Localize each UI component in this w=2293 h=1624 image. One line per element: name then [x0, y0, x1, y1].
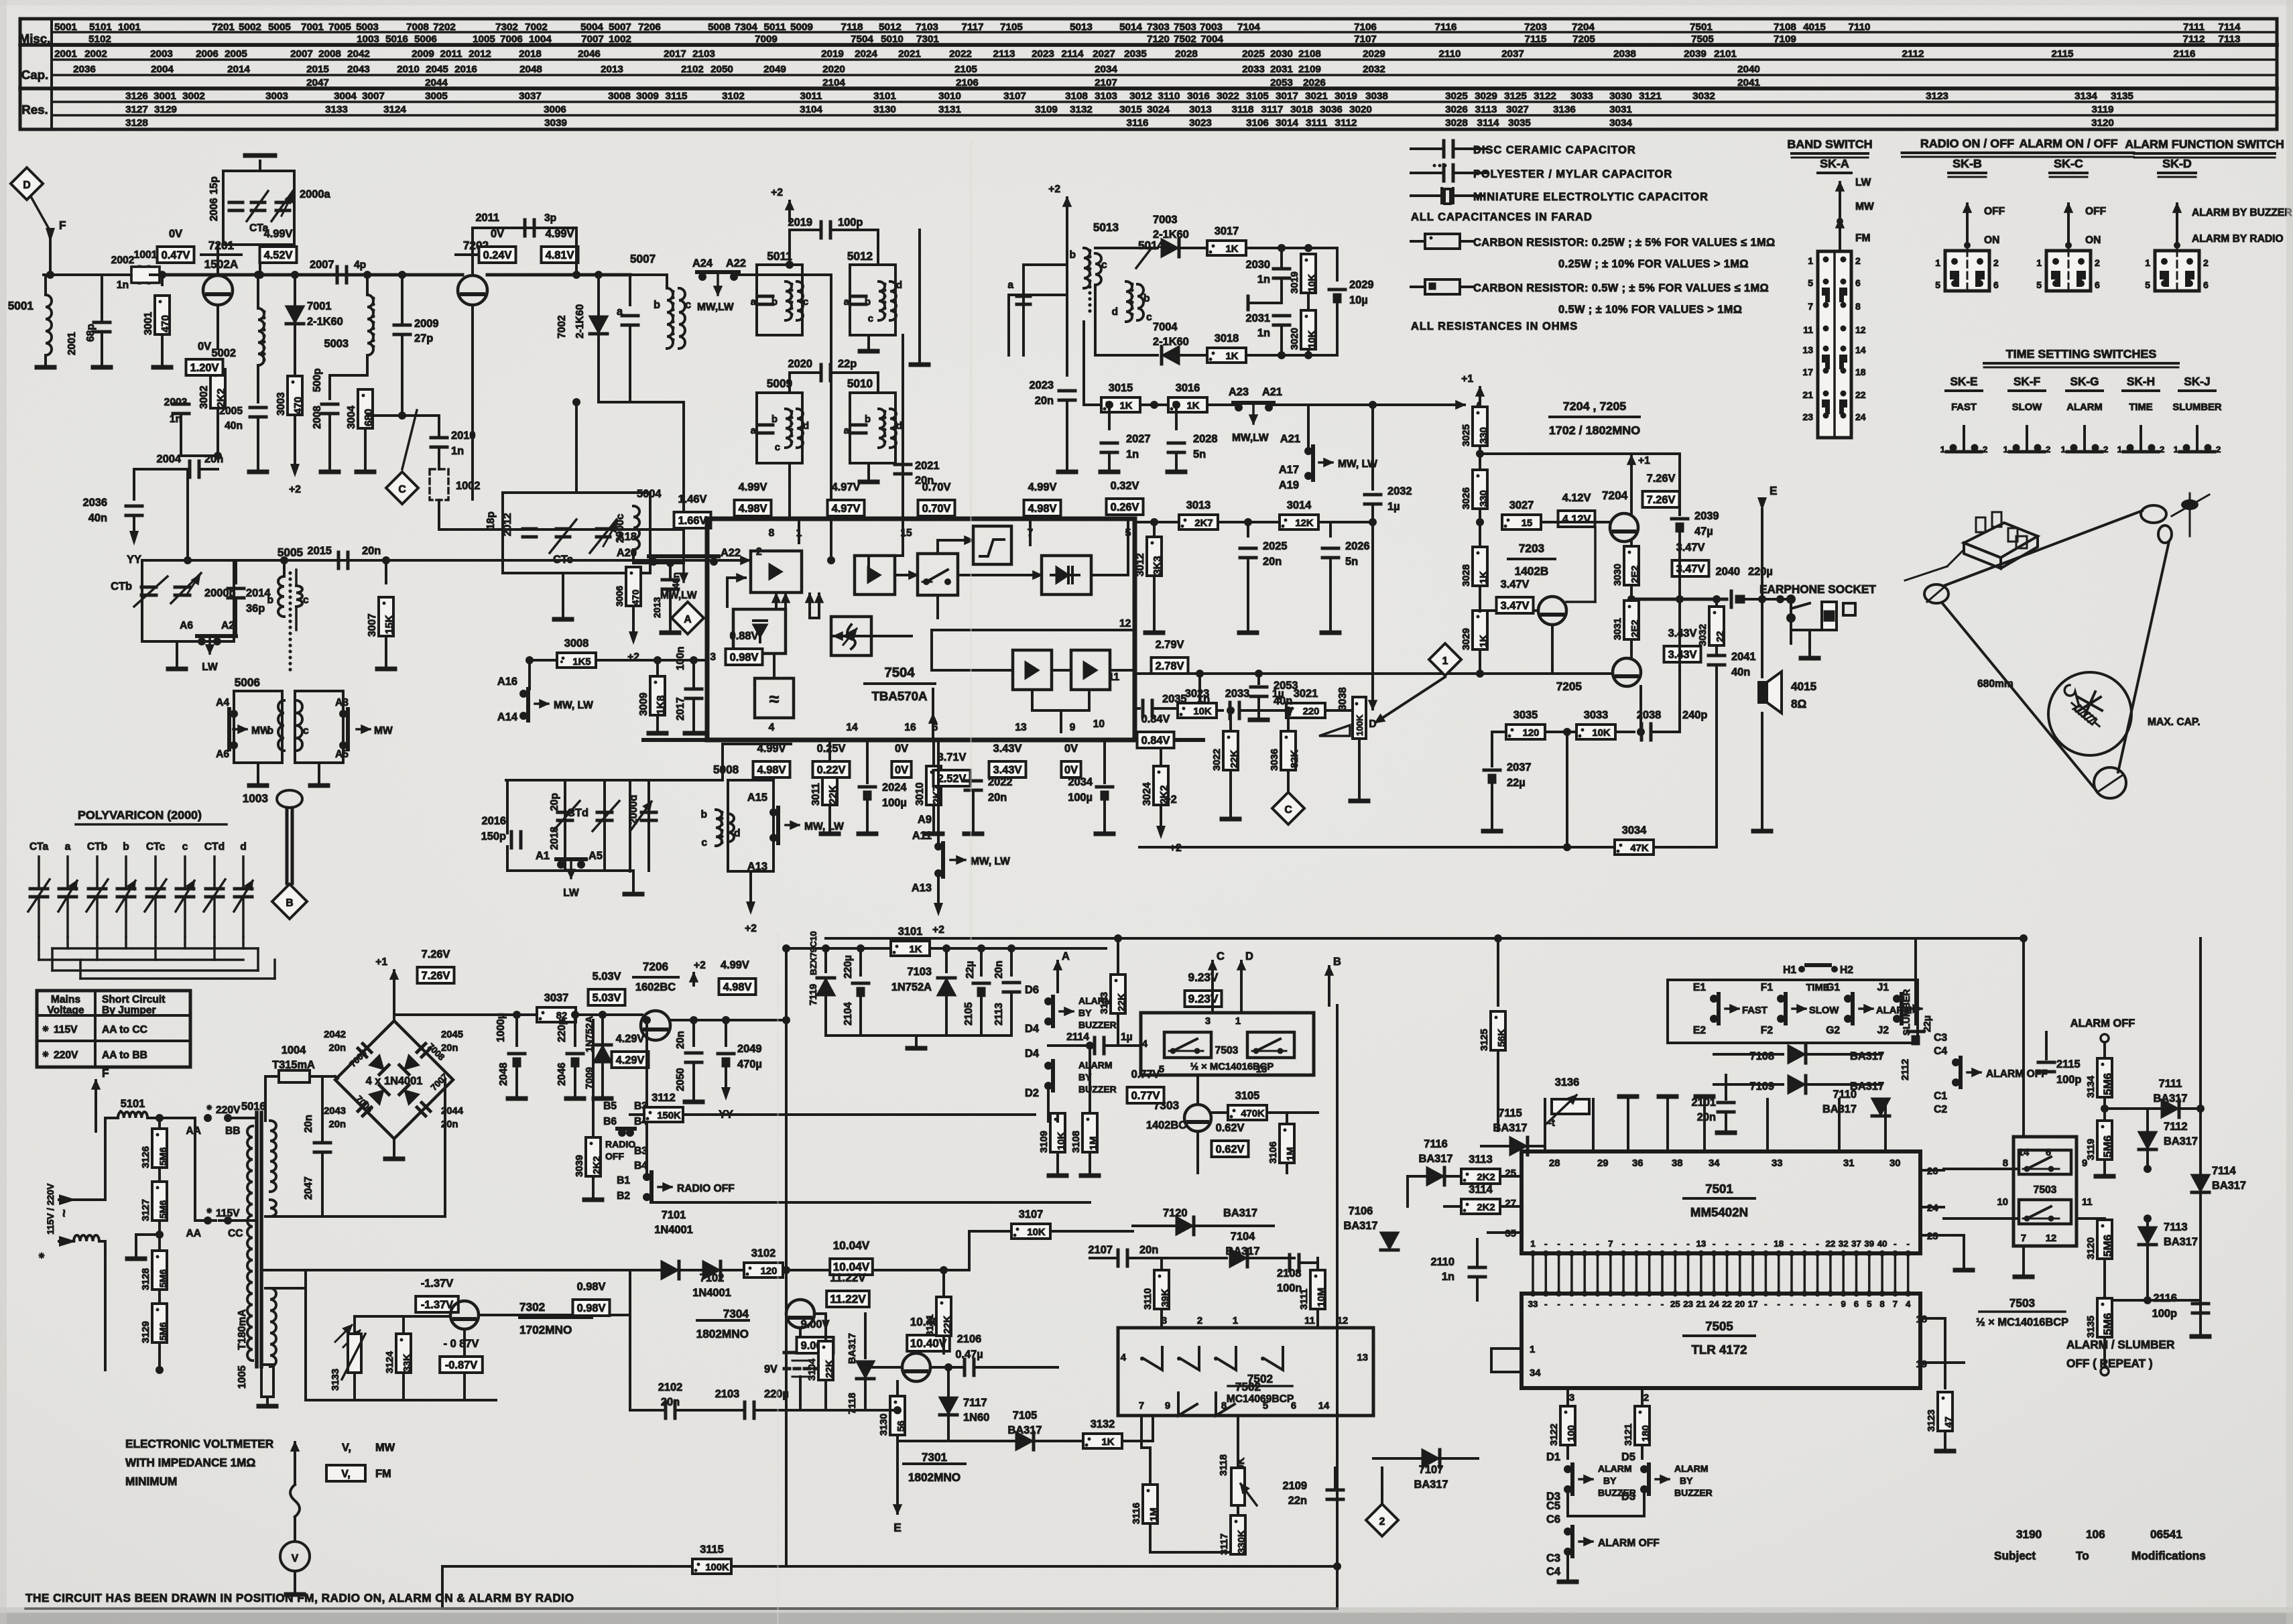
svg-text:10µ: 10µ	[1349, 294, 1368, 306]
svg-text:-0.87V: -0.87V	[445, 1359, 477, 1371]
svg-text:b: b	[865, 414, 871, 425]
svg-text:7005: 7005	[328, 21, 351, 33]
svg-text:2101: 2101	[1692, 1097, 1716, 1109]
cap 2014 36p	[235, 560, 237, 583]
svg-text:680: 680	[363, 409, 375, 426]
svg-text:1M: 1M	[1089, 1136, 1099, 1150]
svg-text:3127: 3127	[141, 1199, 151, 1221]
svg-text:½ × MC14016BCP: ½ × MC14016BCP	[1190, 1062, 1274, 1072]
cap 2047 20n	[321, 1076, 324, 1141]
svg-text:100K: 100K	[705, 1562, 729, 1573]
IC 7502 MC14069BCP	[1118, 1328, 1373, 1416]
svg-text:5001: 5001	[8, 299, 34, 312]
svg-text:2048: 2048	[519, 64, 542, 75]
svg-text:5005: 5005	[277, 546, 304, 559]
svg-text:30: 30	[1889, 1158, 1900, 1169]
svg-text:MW: MW	[375, 1442, 395, 1454]
svg-text:0.32V: 0.32V	[1111, 480, 1139, 492]
svg-text:2: 2	[1379, 1516, 1385, 1527]
svg-text:2001: 2001	[54, 48, 77, 60]
svg-text:2049: 2049	[737, 1043, 761, 1055]
diamond 1 pointer	[1429, 643, 1461, 676]
svg-text:3118: 3118	[1232, 104, 1254, 115]
svg-text:3003: 3003	[265, 90, 288, 102]
svg-text:2116: 2116	[2153, 1292, 2177, 1304]
svg-text:c: c	[1146, 312, 1152, 323]
svg-text:3120: 3120	[2091, 117, 2114, 129]
svg-text:10.04V: 10.04V	[833, 1239, 870, 1252]
svg-text:1K: 1K	[1102, 1437, 1115, 1448]
rail 3037 to regulator 7206	[537, 1007, 576, 1022]
svg-text:3036: 3036	[1320, 104, 1343, 115]
output node wire	[1631, 598, 1727, 601]
svg-text:0V: 0V	[895, 743, 908, 755]
svg-text:3119: 3119	[2086, 1139, 2097, 1160]
svg-text:3022: 3022	[1212, 749, 1223, 771]
svg-text:3012: 3012	[1129, 90, 1152, 102]
svg-text:3104: 3104	[800, 104, 822, 115]
svg-text:9: 9	[1841, 1299, 1845, 1309]
svg-text:14: 14	[846, 722, 858, 733]
svg-text:120: 120	[1523, 728, 1540, 739]
svg-text:5004: 5004	[637, 488, 662, 500]
svg-text:3022: 3022	[1217, 90, 1239, 102]
svg-text:MAX. CAP.: MAX. CAP.	[2148, 716, 2201, 728]
svg-text:220µ: 220µ	[843, 955, 854, 979]
svg-text:3011: 3011	[800, 90, 823, 102]
spring in drum	[2064, 685, 2079, 706]
svg-text:3020: 3020	[1349, 104, 1372, 115]
resistor 3122 100	[1560, 1406, 1575, 1445]
svg-text:≈: ≈	[769, 689, 780, 709]
svg-text:BY: BY	[1078, 1007, 1092, 1018]
cap 2049 470u	[725, 1020, 727, 1046]
svg-text:5: 5	[2145, 279, 2150, 290]
svg-text:7202: 7202	[433, 21, 456, 33]
svg-text:33: 33	[1772, 1158, 1782, 1169]
voltmeter symbol	[294, 1442, 296, 1485]
svg-text:2000a: 2000a	[300, 188, 330, 200]
svg-text:d: d	[734, 828, 741, 839]
svg-text:39: 39	[1864, 1239, 1874, 1249]
svg-text:V,: V,	[342, 1442, 351, 1454]
svg-text:By Jumper: By Jumper	[102, 1005, 156, 1016]
svg-text:10K: 10K	[1307, 330, 1318, 349]
svg-text:-: -	[1686, 1239, 1689, 1249]
svg-text:- 0 87V: - 0 87V	[444, 1338, 479, 1350]
svg-text:28: 28	[1549, 1158, 1560, 1169]
svg-text:2019: 2019	[821, 48, 844, 60]
svg-text:3.47V: 3.47V	[1501, 578, 1530, 590]
svg-text:7009: 7009	[755, 34, 778, 45]
jumper 1001	[131, 267, 160, 283]
zener 7119 BZX79C10	[824, 948, 827, 972]
svg-text:2110: 2110	[1439, 48, 1461, 60]
svg-text:b: b	[771, 414, 778, 425]
svg-text:3025: 3025	[1461, 424, 1472, 446]
svg-text:SK-D: SK-D	[2162, 157, 2192, 170]
svg-text:3p: 3p	[544, 212, 556, 224]
cap 2050 20n	[692, 1020, 695, 1046]
transistor 7205	[1613, 658, 1641, 686]
svg-text:CTb: CTb	[111, 580, 132, 592]
svg-text:7103: 7103	[916, 21, 938, 33]
legend resistors	[1411, 240, 1425, 243]
svg-text:A3: A3	[335, 697, 349, 708]
svg-text:2023: 2023	[1032, 48, 1054, 60]
svg-text:7119: 7119	[808, 984, 819, 1005]
svg-text:1: 1	[2061, 444, 2066, 454]
svg-text:19: 19	[1916, 1359, 1927, 1370]
svg-text:+1: +1	[1638, 455, 1650, 466]
svg-text:3131: 3131	[925, 1314, 936, 1336]
discriminator network	[1095, 247, 1158, 249]
svg-text:3037: 3037	[544, 992, 568, 1004]
svg-text:36: 36	[1632, 1158, 1643, 1169]
svg-text:20n: 20n	[441, 1119, 458, 1130]
svg-text:3132: 3132	[1070, 104, 1093, 115]
svg-text:BA317: BA317	[1493, 1122, 1527, 1134]
svg-text:1: 1	[1940, 444, 1946, 454]
svg-text:5008: 5008	[708, 21, 731, 33]
IC 7503 first half box	[1141, 1013, 1314, 1075]
svg-text:3024: 3024	[1147, 104, 1170, 115]
svg-text:RADIO OFF: RADIO OFF	[677, 1183, 735, 1194]
svg-text:7301: 7301	[922, 1450, 948, 1464]
svg-text:3131: 3131	[938, 104, 961, 115]
svg-text:MINIATURE ELECTROLYTIC CAP: MINIATURE ELECTROLYTIC CAPACITOR	[1473, 191, 1709, 203]
svg-text:2008: 2008	[312, 405, 323, 429]
svg-text:5005: 5005	[268, 21, 291, 33]
svg-text:D3: D3	[1621, 1491, 1635, 1503]
svg-text:7504: 7504	[884, 666, 915, 680]
svg-text:7106: 7106	[1349, 1205, 1373, 1217]
jumper 115V AA CC	[194, 1118, 196, 1221]
svg-text:ON: ON	[1984, 235, 1999, 246]
IC internal wiring	[721, 559, 749, 562]
svg-text:2K2: 2K2	[1477, 1202, 1495, 1213]
svg-text:7.26V: 7.26V	[422, 948, 450, 960]
svg-text:2: 2	[2160, 444, 2164, 454]
svg-text:56K: 56K	[1497, 1029, 1507, 1047]
diode 7002	[575, 228, 578, 275]
svg-text:3: 3	[1162, 1316, 1167, 1326]
cap 2008 500p	[328, 375, 331, 399]
svg-text:2014: 2014	[227, 64, 250, 75]
base wire 7203-7204 pair	[1594, 527, 1597, 602]
svg-text:DISC CERAMIC CAPACITOR: DISC CERAMIC CAPACITOR	[1473, 144, 1636, 156]
svg-text:MW, LW: MW, LW	[971, 856, 1010, 867]
svg-text:7105: 7105	[1000, 21, 1023, 33]
gnd stub	[1248, 302, 1282, 304]
svg-text:2102: 2102	[681, 64, 704, 75]
svg-text:3023: 3023	[1189, 117, 1212, 129]
terminal A arrow	[1056, 961, 1059, 973]
svg-text:21: 21	[1802, 389, 1813, 400]
svg-text:0.88V: 0.88V	[730, 630, 759, 642]
svg-text:-: -	[1739, 1239, 1741, 1249]
svg-text:MW, LW: MW, LW	[804, 821, 844, 832]
svg-text:2: 2	[2103, 444, 2108, 454]
svg-text:3129: 3129	[141, 1321, 151, 1343]
svg-text:To: To	[2076, 1549, 2089, 1562]
svg-text:2115: 2115	[2056, 1058, 2081, 1070]
svg-text:2047: 2047	[306, 77, 329, 88]
svg-text:MW: MW	[251, 725, 270, 737]
svg-text:1n: 1n	[451, 445, 464, 457]
svg-text:7206: 7206	[638, 21, 661, 33]
svg-text:1502A: 1502A	[204, 257, 239, 271]
svg-text:C1: C1	[1934, 1090, 1947, 1102]
svg-text:OFF: OFF	[2085, 206, 2106, 217]
svg-text:7114: 7114	[2219, 21, 2241, 33]
svg-text:Mains: Mains	[51, 994, 81, 1005]
svg-text:-: -	[1894, 1239, 1896, 1249]
svg-text:b: b	[771, 297, 778, 308]
svg-text:MW,LW: MW,LW	[697, 302, 734, 313]
svg-text:c: c	[868, 314, 873, 324]
svg-text:1N60: 1N60	[963, 1412, 989, 1424]
resistor 3107 10K	[1011, 1224, 1050, 1239]
svg-text:330K: 330K	[1237, 1529, 1247, 1554]
svg-text:1K: 1K	[910, 944, 922, 955]
svg-text:3123: 3123	[1926, 1410, 1937, 1432]
pin15 path	[902, 519, 904, 556]
svg-text:7111: 7111	[2159, 1078, 2182, 1090]
svg-text:5011: 5011	[764, 21, 787, 33]
svg-text:-t: -t	[1548, 1118, 1555, 1129]
svg-text:7.26V: 7.26V	[1647, 494, 1676, 506]
svg-text:39K: 39K	[1160, 1289, 1171, 1307]
cap 2017 100n	[690, 656, 698, 664]
svg-text:BA317: BA317	[1007, 1424, 1042, 1436]
detector block	[1042, 556, 1091, 595]
svg-text:4.99V: 4.99V	[721, 959, 749, 971]
svg-text:2002: 2002	[111, 255, 135, 266]
svg-text:5M6: 5M6	[2101, 1313, 2114, 1335]
svg-text:20n: 20n	[1139, 1244, 1158, 1256]
svg-text:40n: 40n	[225, 420, 243, 432]
svg-text:3103: 3103	[1095, 90, 1117, 102]
svg-text:1: 1	[2003, 444, 2009, 454]
svg-text:1001: 1001	[118, 21, 141, 33]
svg-text:A9: A9	[918, 814, 932, 826]
svg-text:D2: D2	[1025, 1087, 1039, 1099]
svg-text:c: c	[303, 595, 309, 606]
svg-text:b: b	[700, 809, 707, 820]
svg-text:2043: 2043	[347, 64, 370, 75]
svg-text:47: 47	[1944, 1417, 1955, 1428]
svg-text:22: 22	[1715, 631, 1726, 642]
IC 7504 TBA570A outline	[707, 519, 1135, 740]
svg-text:3033: 3033	[1584, 709, 1608, 721]
svg-text:3132: 3132	[1091, 1418, 1115, 1430]
svg-text:8: 8	[1855, 301, 1861, 312]
svg-text:TIME: TIME	[2129, 402, 2152, 413]
svg-text:5.03V: 5.03V	[593, 992, 621, 1004]
svg-text:WITH IMPEDANCE 1MΩ: WITH IMPEDANCE 1MΩ	[125, 1456, 255, 1469]
svg-text:11: 11	[2082, 1197, 2093, 1208]
cap 2024 100u	[859, 786, 875, 789]
svg-text:3114: 3114	[1469, 1184, 1493, 1196]
svg-text:7203: 7203	[1519, 542, 1544, 555]
svg-text:3114: 3114	[1477, 117, 1500, 129]
diode 7004	[1095, 354, 1158, 357]
svg-text:2030: 2030	[1270, 48, 1293, 60]
svg-text:5010: 5010	[881, 34, 904, 45]
svg-text:3008: 3008	[564, 637, 588, 649]
resistor 3012 3K3	[1153, 522, 1156, 536]
svg-text:A21: A21	[1262, 386, 1282, 398]
pin6 arrows	[932, 714, 934, 740]
resistors 3109 3108	[1050, 1113, 1065, 1152]
resistor 3117 330K	[1231, 1515, 1245, 1554]
svg-text:7108: 7108	[1774, 21, 1796, 33]
svg-text:C4: C4	[1934, 1046, 1947, 1057]
svg-text:40: 40	[1877, 1239, 1887, 1249]
svg-text:2-1K60: 2-1K60	[307, 316, 343, 328]
svg-text:1402B: 1402B	[1515, 564, 1549, 578]
svg-text:22: 22	[1855, 389, 1866, 400]
svg-text:3001: 3001	[143, 312, 154, 335]
transistor 7301	[902, 1353, 930, 1381]
svg-text:7501: 7501	[1690, 21, 1713, 33]
bridge rectifier 4x1N4001	[335, 1021, 453, 1139]
svg-text:100p: 100p	[838, 216, 863, 229]
svg-text:20n: 20n	[988, 792, 1007, 804]
legend capacitor types	[1411, 147, 1442, 150]
svg-text:B5: B5	[603, 1101, 617, 1112]
svg-text:1: 1	[2145, 257, 2150, 268]
parts table	[20, 19, 2277, 129]
svg-text:5004: 5004	[580, 21, 603, 33]
resistor 3032 22	[1715, 599, 1718, 607]
svg-text:3112: 3112	[652, 1092, 676, 1104]
svg-text:7: 7	[2021, 1233, 2026, 1244]
svg-text:2011: 2011	[440, 48, 463, 60]
svg-text:3121: 3121	[1623, 1424, 1634, 1446]
svg-text:3024: 3024	[1141, 782, 1153, 806]
feedback line 3035 3033 2038	[1492, 731, 1507, 733]
svg-text:3116: 3116	[1131, 1503, 1142, 1524]
svg-text:a: a	[844, 426, 850, 436]
svg-text:2053: 2053	[1270, 77, 1293, 88]
svg-text:3119: 3119	[2092, 104, 2114, 115]
svg-text:2114: 2114	[1062, 48, 1084, 60]
svg-text:CTa: CTa	[29, 841, 49, 853]
svg-text:3038: 3038	[1337, 687, 1349, 710]
svg-text:3K3: 3K3	[1152, 556, 1164, 575]
svg-text:0.26V: 0.26V	[1111, 501, 1139, 513]
svg-text:3028: 3028	[1461, 564, 1472, 586]
resistor 3132 1K	[1083, 1434, 1122, 1448]
svg-text:5.03V: 5.03V	[593, 971, 621, 983]
svg-text:3190: 3190	[2016, 1527, 2042, 1541]
svg-text:6: 6	[1993, 279, 1999, 290]
svg-text:2031: 2031	[1270, 64, 1293, 75]
svg-text:3035: 3035	[1508, 117, 1531, 129]
svg-text:CARBON RESISTOR: 0.25W ; ± 5%: CARBON RESISTOR: 0.25W ; ± 5% FOR VALUES…	[1473, 237, 1776, 249]
primary winding	[247, 1126, 253, 1361]
svg-text:2043: 2043	[324, 1106, 346, 1117]
svg-text:1602BC: 1602BC	[635, 981, 676, 993]
svg-text:10: 10	[1093, 719, 1105, 730]
svg-text:9.23V: 9.23V	[1188, 992, 1219, 1005]
svg-text:7001: 7001	[301, 21, 324, 33]
svg-text:2017: 2017	[664, 48, 686, 60]
svg-text:B6: B6	[603, 1116, 617, 1127]
svg-text:BA317: BA317	[1343, 1220, 1377, 1232]
svg-text:3128: 3128	[125, 117, 148, 129]
svg-text:3032: 3032	[1692, 90, 1715, 102]
svg-text:CARBON RESISTOR: 0.5W ; ± 5%: CARBON RESISTOR: 0.5W ; ± 5% FOR VALUES …	[1473, 282, 1769, 294]
zener 7009 1N752A	[601, 1015, 604, 1042]
svg-text:25: 25	[1670, 1299, 1680, 1309]
svg-text:3014: 3014	[1276, 117, 1298, 129]
svg-text:38: 38	[1672, 1158, 1682, 1169]
cap 2032 1u	[1371, 405, 1374, 489]
resistor 3023 10K	[1178, 703, 1217, 718]
svg-text:10K: 10K	[1193, 706, 1211, 717]
svg-text:7503: 7503	[2009, 1296, 2035, 1310]
svg-text:9: 9	[2082, 1158, 2087, 1169]
svg-text:C5: C5	[1546, 1500, 1560, 1512]
svg-text:3039: 3039	[544, 117, 567, 129]
A diamond	[672, 602, 704, 634]
svg-text:3125: 3125	[1504, 90, 1527, 102]
cap 2048 1000u	[515, 1015, 518, 1046]
svg-text:4.12V: 4.12V	[1562, 513, 1591, 525]
svg-text:33K: 33K	[402, 1354, 413, 1372]
svg-text:23: 23	[1683, 1299, 1693, 1309]
svg-text:2027: 2027	[1126, 433, 1150, 445]
NTC 3136	[1552, 1099, 1589, 1114]
svg-text:3107: 3107	[1003, 90, 1026, 102]
svg-text:17: 17	[1802, 367, 1813, 377]
svg-text:106: 106	[2086, 1527, 2105, 1541]
svg-text:BB: BB	[225, 1125, 241, 1137]
svg-text:22K: 22K	[1229, 750, 1240, 768]
svg-text:2115: 2115	[2052, 48, 2074, 60]
svg-text:F1: F1	[1761, 982, 1774, 993]
svg-text:15K: 15K	[384, 615, 395, 634]
resistor 3119 5M6	[2097, 1121, 2112, 1160]
svg-text:3.47V: 3.47V	[1501, 600, 1530, 612]
svg-text:2013: 2013	[601, 64, 623, 75]
svg-text:Short Circuit: Short Circuit	[102, 994, 165, 1005]
resistor 3031 2E2	[1624, 601, 1639, 639]
transformer 5016 core	[255, 1113, 259, 1367]
svg-text:2027: 2027	[1093, 48, 1115, 60]
svg-text:3105: 3105	[1235, 1090, 1259, 1102]
svg-text:20n: 20n	[329, 1119, 347, 1130]
svg-text:BA317: BA317	[2164, 1236, 2198, 1248]
svg-text:1002: 1002	[609, 34, 631, 45]
svg-text:10M: 10M	[1316, 1288, 1327, 1307]
svg-text:0.62V: 0.62V	[1216, 1122, 1245, 1134]
svg-text:2005: 2005	[219, 405, 243, 417]
svg-text:2109: 2109	[1298, 64, 1321, 75]
svg-text:5: 5	[1867, 1299, 1872, 1309]
svg-text:✳: ✳	[38, 1253, 46, 1259]
resistor 3011 22K	[828, 740, 831, 764]
svg-text:3026: 3026	[1445, 104, 1468, 115]
svg-text:2045: 2045	[426, 64, 448, 75]
svg-text:680mm: 680mm	[1977, 678, 2013, 690]
svg-text:3111: 3111	[1299, 1289, 1310, 1310]
svg-text:BA317: BA317	[2212, 1180, 2246, 1192]
svg-text:MM5402N: MM5402N	[1690, 1205, 1748, 1219]
